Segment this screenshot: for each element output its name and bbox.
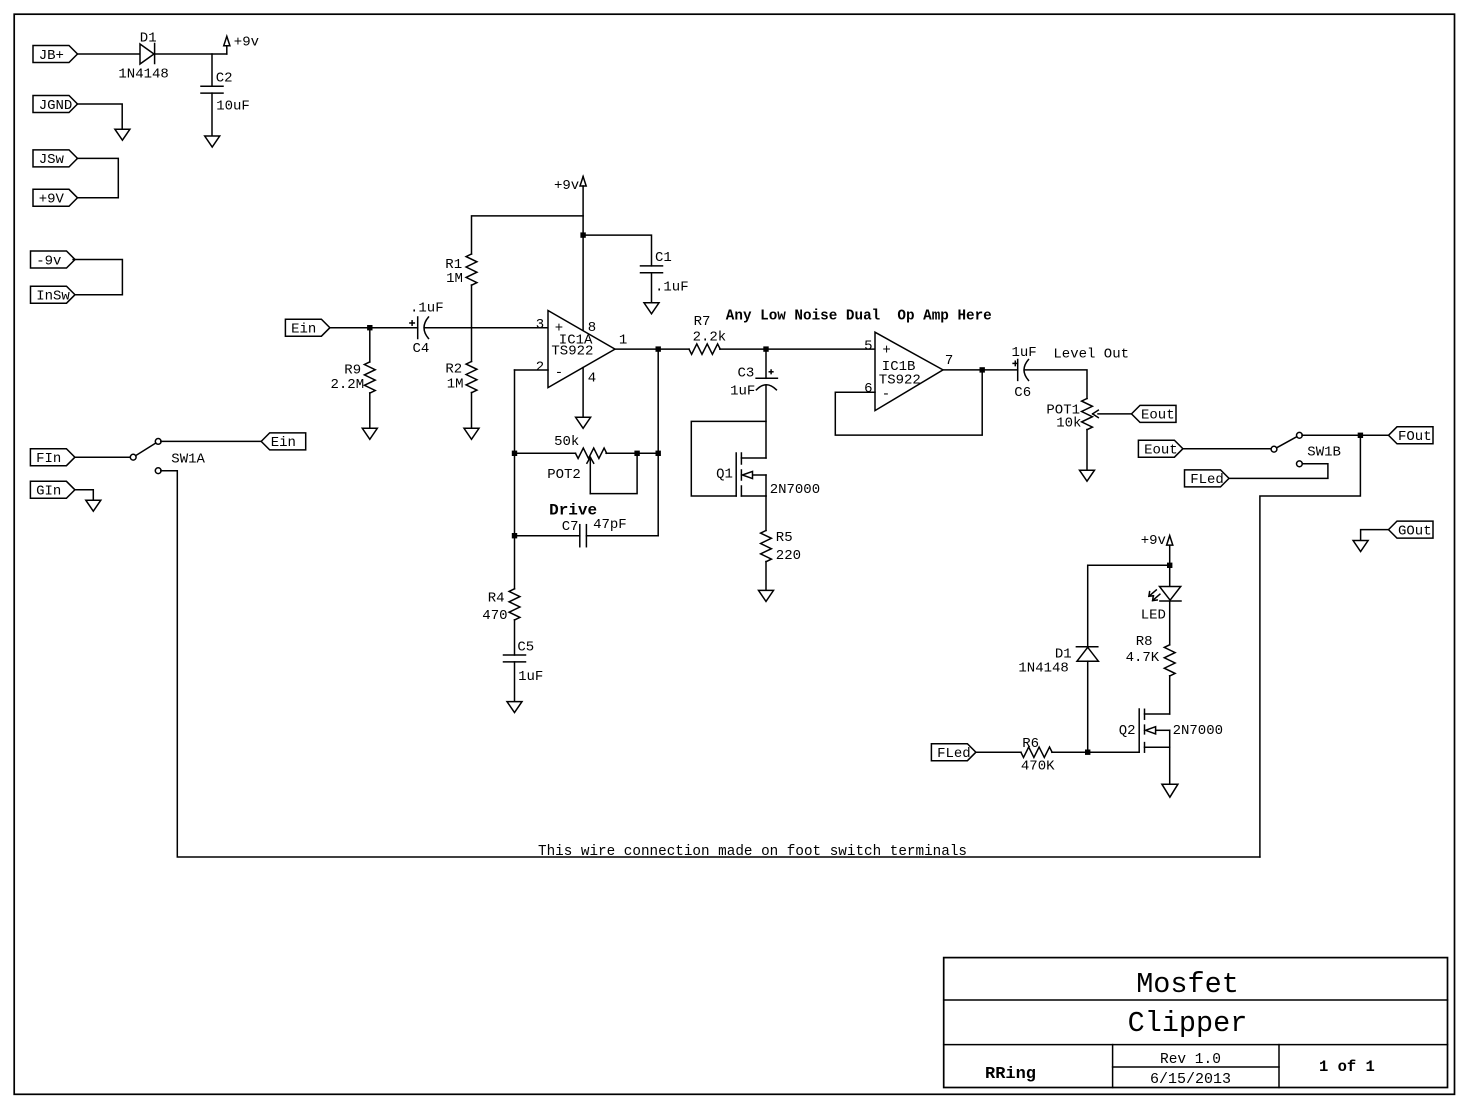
svg-text:Q1: Q1 [716, 467, 733, 483]
svg-text:47pF: 47pF [593, 517, 627, 533]
svg-text:JB+: JB+ [39, 48, 64, 64]
ground (JGND) [115, 129, 130, 140]
op-amp IC1A [548, 311, 615, 388]
resistor R5 [761, 531, 772, 562]
connector flag GIn [30, 481, 75, 499]
node (IC1B output) [980, 367, 985, 372]
wire pin 4 to ground [582, 368, 584, 418]
svg-text:2N7000: 2N7000 [770, 482, 820, 498]
wire POT2 wiper loop [590, 453, 637, 493]
ground (Q2) [1162, 784, 1178, 797]
wire R2 to ground [471, 393, 473, 429]
wire JSw to +9V [77, 158, 118, 197]
resistor R8 [1164, 645, 1175, 676]
svg-text:1: 1 [619, 333, 627, 349]
ground (POT1) [1080, 470, 1095, 481]
wire IC1A output [615, 348, 689, 350]
svg-text:1uF: 1uF [1012, 345, 1037, 361]
svg-text:C5: C5 [517, 639, 534, 655]
svg-text:2.2k: 2.2k [693, 330, 727, 346]
svg-text:Any Low Noise Dual Op Amp Her: Any Low Noise Dual Op Amp Here [726, 309, 992, 325]
wire -9v to InSw [73, 260, 122, 295]
resistor R2 [466, 362, 477, 393]
resistor R4 [509, 589, 520, 620]
wire D1 to gate node [1087, 661, 1089, 752]
svg-text:Level Out: Level Out [1053, 347, 1129, 363]
node (Ein/R9 junction) [367, 325, 372, 330]
node (POT2 to rail) [656, 451, 661, 456]
svg-text:C6: C6 [1014, 385, 1031, 401]
op-amp IC1B [875, 332, 943, 410]
wire SW1A throw1 to Ein [161, 440, 261, 442]
capacitor C6 (polarized) [1013, 360, 1028, 381]
wire SW1A throw2 to foot switch wire [161, 471, 1260, 857]
svg-text:2N7000: 2N7000 [1173, 723, 1223, 739]
node (FOut) [1358, 433, 1363, 438]
svg-text:1 of 1: 1 of 1 [1319, 1058, 1375, 1076]
wire SW1B throw2 to FLed [1229, 464, 1328, 479]
svg-text:D1: D1 [140, 30, 157, 46]
svg-text:10uF: 10uF [216, 99, 250, 115]
connector flag -9v [31, 251, 76, 269]
node (pin2/POT2 left) [512, 451, 517, 456]
resistor R1 [466, 254, 477, 285]
wire FIn to SW1A pole [75, 456, 130, 458]
potentiometer POT2 50k [576, 448, 607, 494]
node (POT2 right) [634, 451, 639, 456]
wire JGND to ground [77, 104, 122, 129]
connector flag InSw [31, 286, 76, 304]
svg-text:7: 7 [945, 353, 953, 369]
wire C7 left [515, 535, 580, 537]
svg-text:SW1A: SW1A [171, 452, 205, 468]
svg-text:C1: C1 [655, 250, 672, 266]
svg-text:R6: R6 [1022, 736, 1039, 752]
wire D1 cathode to +9v node [155, 53, 227, 55]
connector flag FIn [30, 449, 75, 467]
svg-text:FLed: FLed [937, 746, 971, 762]
wire C1 to ground [651, 273, 653, 303]
wire node to C3 [765, 349, 767, 378]
svg-text:R4: R4 [488, 591, 505, 607]
wire node to C2 [211, 54, 213, 86]
wire +9v to LED [1169, 565, 1171, 587]
connector flag Eout (to switch) [1138, 440, 1183, 458]
svg-text:470K: 470K [1021, 759, 1055, 775]
switch SW1A [130, 439, 161, 474]
svg-text:GOut: GOut [1398, 523, 1432, 539]
svg-text:50k: 50k [554, 434, 579, 450]
connector flag Ein (from switch) [261, 433, 306, 451]
wire IC1B output [943, 369, 1018, 371]
wire C2 to ground [211, 93, 213, 136]
diode D1 (LED clamp) [1076, 647, 1098, 661]
title block frame [944, 958, 1448, 1088]
svg-text:1M: 1M [447, 377, 464, 393]
svg-text:+9v: +9v [554, 178, 579, 194]
resistor R6 [1021, 747, 1052, 757]
svg-text:TS922: TS922 [879, 373, 921, 389]
svg-text:470: 470 [482, 608, 507, 624]
svg-text:This wire connection made on f: This wire connection made on foot switch… [538, 844, 967, 860]
ground (C5) [507, 702, 522, 713]
svg-text:InSw: InSw [36, 289, 70, 305]
svg-text:+9v: +9v [234, 35, 259, 51]
wire Eout to SW1B pole [1183, 448, 1271, 450]
wire node to R9 [369, 328, 371, 362]
svg-text:RRing: RRing [985, 1065, 1036, 1084]
power +9v arrow (battery input) [224, 36, 230, 54]
wire pin 2 rail down [514, 370, 516, 536]
svg-text:6/15/2013: 6/15/2013 [1150, 1071, 1231, 1088]
svg-text:1N4148: 1N4148 [1018, 660, 1068, 676]
svg-text:R7: R7 [694, 314, 711, 330]
svg-text:.1uF: .1uF [655, 279, 689, 295]
ground (GIn) [86, 500, 101, 511]
svg-text:5: 5 [864, 338, 872, 354]
wire pin3 rail to R2 [471, 328, 473, 362]
wire JB+ to D1 anode [78, 53, 141, 55]
wire C5 to ground [514, 662, 516, 702]
svg-text:GIn: GIn [36, 484, 61, 500]
wire R5 to ground [765, 562, 767, 591]
connector flag JB+ [33, 46, 78, 64]
svg-text:2: 2 [536, 360, 544, 376]
svg-text:1M: 1M [446, 271, 463, 287]
transistor Q1 2N7000 [736, 453, 766, 496]
node (+9v LED branch) [1167, 563, 1172, 568]
svg-text:R2: R2 [445, 362, 462, 378]
connector flag FOut [1389, 427, 1434, 445]
connector flag Eout (wiper) [1132, 405, 1177, 423]
svg-text:-9v: -9v [36, 253, 61, 269]
connector flag Ein (input) [285, 319, 330, 337]
svg-text:4: 4 [588, 371, 596, 387]
wire Q2 source to ground [1169, 747, 1171, 784]
wire output node down to POT2/C7 [657, 349, 659, 536]
ground (GOut) [1353, 541, 1368, 552]
connector flag +9V [33, 189, 78, 207]
connector flag JSw [33, 150, 78, 168]
wire R9 to ground [369, 393, 371, 428]
svg-text:FOut: FOut [1398, 429, 1432, 445]
capacitor C7 [580, 525, 587, 547]
svg-text:3: 3 [536, 317, 544, 333]
node (IC1A output) [656, 346, 661, 351]
capacitor C4 (polarized) [410, 317, 429, 339]
svg-text:C4: C4 [413, 341, 430, 357]
wire POT2 right [606, 452, 658, 454]
ground (C2) [205, 136, 220, 147]
svg-text:1N4148: 1N4148 [118, 67, 168, 83]
wire R1 to pin3 wire [471, 285, 473, 328]
node (gate/D1/R6) [1085, 750, 1090, 755]
svg-text:Mosfet: Mosfet [1136, 968, 1239, 1001]
wire GIn to ground [75, 490, 93, 500]
ground (R2) [464, 428, 479, 439]
capacitor C2 [201, 86, 223, 93]
node (C7 left) [512, 533, 517, 538]
wire Q2 gate to node [1088, 751, 1140, 753]
connector flag FLed (LED driver) [931, 744, 976, 762]
wire +9v node to D1 [1088, 565, 1170, 647]
svg-text:+9v: +9v [1141, 533, 1166, 549]
svg-text:4.7K: 4.7K [1126, 650, 1160, 666]
svg-text:FIn: FIn [36, 451, 61, 467]
wire Q1 source to R5 [765, 496, 767, 531]
svg-text:R5: R5 [776, 530, 793, 546]
svg-text:Drive: Drive [549, 501, 597, 519]
node (+9v/C1 branch) [580, 232, 585, 237]
svg-text:Ein: Ein [271, 435, 296, 451]
svg-text:8: 8 [588, 320, 596, 336]
wire +9v branch to R1 [472, 216, 584, 254]
svg-text:10k: 10k [1056, 415, 1081, 431]
svg-text:Eout: Eout [1141, 408, 1175, 424]
svg-text:-: - [882, 386, 890, 402]
svg-text:6: 6 [864, 381, 872, 397]
svg-text:-: - [555, 365, 563, 381]
potentiometer POT1 10k [1082, 399, 1132, 430]
wire GOut to ground [1361, 530, 1389, 541]
svg-text:+: + [882, 342, 890, 358]
wire R7 to pin 5 [720, 348, 875, 350]
resistor R7 [689, 344, 720, 354]
transistor Q2 2N7000 [1139, 709, 1170, 752]
connector flag JGND [33, 96, 78, 114]
svg-text:Q2: Q2 [1119, 723, 1136, 739]
wire POT1 to ground [1086, 430, 1088, 471]
svg-text:Eout: Eout [1144, 443, 1178, 459]
wire +9v rail to pin 8 [582, 186, 584, 331]
wire pin 2 [515, 369, 549, 371]
svg-text:C3: C3 [738, 366, 755, 382]
svg-text:C7: C7 [562, 519, 579, 535]
wire R4 to C5 [514, 620, 516, 655]
power +9v arrow (opamp rail) [580, 177, 586, 187]
power +9v arrow (LED) [1167, 536, 1173, 566]
svg-text:1uF: 1uF [730, 384, 755, 400]
LED [1149, 587, 1181, 602]
svg-text:LED: LED [1141, 607, 1166, 623]
wire C3 to Q1 drain [765, 385, 767, 458]
wire gate-drain tie (Q1 box) [691, 421, 766, 496]
wire POT2 left [515, 452, 576, 454]
svg-text:C2: C2 [216, 71, 233, 87]
ground (R9) [362, 428, 377, 439]
wire SW1B throw1 to FOut [1302, 434, 1389, 436]
wire node to C1 [583, 235, 651, 266]
wire C4 to pin 3 [425, 327, 548, 329]
wire FLed to R6 [976, 751, 1021, 753]
node (R7/C3/pin5) [763, 346, 768, 351]
capacitor C3 (polarized) [756, 370, 777, 390]
svg-text:JSw: JSw [39, 152, 65, 168]
wire Ein to C4 [330, 327, 418, 329]
capacitor C1 [641, 266, 663, 273]
svg-text:SW1B: SW1B [1307, 444, 1341, 460]
wire LED to R8 [1169, 602, 1171, 645]
svg-text:220: 220 [776, 548, 801, 564]
wire R8 to Q2 drain [1169, 676, 1171, 714]
wire C6 to POT1 [1025, 370, 1087, 399]
svg-text:2.2M: 2.2M [331, 377, 365, 393]
svg-text:R9: R9 [344, 363, 361, 379]
ground (C1) [644, 303, 659, 314]
svg-text:Rev 1.0: Rev 1.0 [1160, 1052, 1221, 1068]
svg-text:Ein: Ein [291, 322, 316, 338]
connector flag FLed (from switch) [1185, 470, 1230, 488]
svg-text:Clipper: Clipper [1128, 1007, 1248, 1040]
svg-text:+9V: +9V [39, 192, 65, 208]
wire IC1B feedback loop [835, 370, 982, 435]
resistor R9 [364, 362, 375, 393]
connector flag GOut [1389, 521, 1434, 539]
diode D1 [140, 44, 155, 65]
wire C7 right [586, 535, 658, 537]
svg-text:R8: R8 [1136, 634, 1153, 650]
svg-text:TS922: TS922 [551, 344, 593, 360]
svg-text:1uF: 1uF [518, 669, 543, 685]
capacitor C5 [504, 655, 526, 662]
wire R6 to node [1052, 751, 1088, 753]
wire node to R4 [514, 536, 516, 589]
switch SW1B [1271, 432, 1302, 466]
ground (R5) [759, 590, 774, 601]
svg-text:JGND: JGND [39, 98, 73, 114]
ground (pin 4) [576, 417, 591, 428]
wire FOut node down to foot switch wire [1260, 435, 1361, 857]
svg-text:.1uF: .1uF [410, 301, 444, 317]
svg-text:FLed: FLed [1190, 472, 1224, 488]
svg-text:POT2: POT2 [547, 467, 581, 483]
